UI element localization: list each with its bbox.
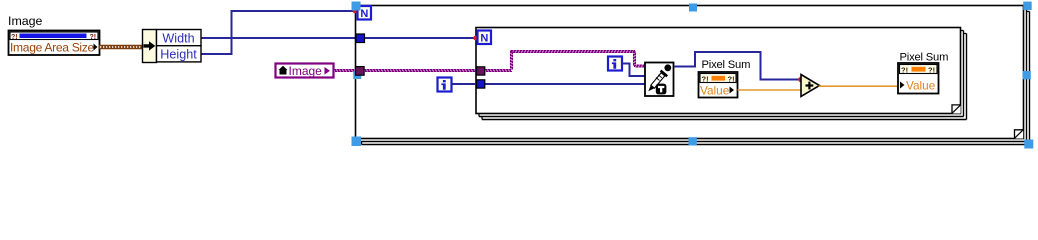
iteration terminal i (outer loop) (438, 78, 452, 92)
coercion dot (add input) (798, 77, 804, 83)
wire: inner i to GetPixel (622, 64, 645, 77)
wire: outer i to inner loop tunnel and across to GetPixel (452, 83, 478, 85)
unbundle by name function (143, 30, 202, 63)
svg-text:?!: ?! (901, 66, 908, 75)
coercion dot (inner N) (473, 36, 478, 41)
selection handle bottom-left (352, 137, 362, 147)
tunnel: Width into outer loop (356, 34, 365, 43)
svg-text:Height: Height (160, 48, 197, 62)
tunnel: outer i into inner loop (477, 80, 485, 88)
svg-text:Width: Width (162, 31, 194, 45)
shared variable read: Pixel Sum.Value (699, 72, 738, 98)
svg-text:Value: Value (700, 84, 730, 98)
selection handle bottom-middle (689, 137, 697, 145)
cluster wire (control to unbundle) (99, 45, 143, 49)
svg-text:Pixel Sum: Pixel Sum (702, 59, 751, 71)
svg-text:?!: ?! (928, 66, 935, 75)
IMAQ GetPixelValue icon (645, 63, 674, 97)
for loop (outer) (356, 6, 1030, 145)
svg-text:Image: Image (8, 14, 43, 28)
wire: add output to write node (819, 85, 899, 87)
selection handle top-right (1023, 2, 1031, 11)
shared variable write: Pixel Sum.Value (898, 63, 939, 94)
count terminal N (inner loop) (478, 31, 492, 45)
selection handle bottom-right (1024, 140, 1033, 149)
svg-text:Image: Image (289, 64, 323, 78)
add function (801, 75, 820, 97)
selection handle right-middle (1023, 71, 1031, 79)
svg-text:Pixel Sum: Pixel Sum (900, 52, 949, 64)
svg-text:N: N (360, 8, 368, 20)
Image control reference node (276, 64, 334, 79)
svg-text:?!: ?! (728, 75, 735, 84)
wire: Width (unbundle to inner N) (201, 37, 475, 39)
svg-text:Value: Value (906, 79, 936, 93)
svg-text:N: N (480, 33, 488, 45)
count terminal N (outer loop) (358, 6, 372, 20)
refnum wire: Image ref to inner loop (334, 70, 476, 72)
control terminal: Image Area Size (cluster) (9, 31, 100, 56)
coercion dot (outer N) (353, 9, 358, 14)
dog-ear corner (inner loop) (952, 105, 961, 114)
svg-text:Image Area Size: Image Area Size (10, 41, 95, 55)
for loop (inner) (476, 28, 967, 120)
wire: Value to add input (738, 89, 802, 91)
svg-text:?!: ?! (702, 75, 709, 84)
refnum wire inside inner loop (485, 70, 512, 72)
dog-ear corner (outer loop) (1015, 130, 1024, 139)
selection handle left-middle (353, 71, 361, 79)
wire: pixel value out to add (674, 52, 799, 80)
iteration terminal i (inner loop) (608, 57, 622, 71)
selection handle top-middle (689, 4, 697, 12)
selection handle top-left (352, 2, 361, 11)
tunnel: image ref into inner loop (477, 67, 485, 75)
wire: Height (unbundle up and over to outer N) (201, 11, 354, 54)
tunnel: image ref into outer loop (356, 67, 365, 76)
